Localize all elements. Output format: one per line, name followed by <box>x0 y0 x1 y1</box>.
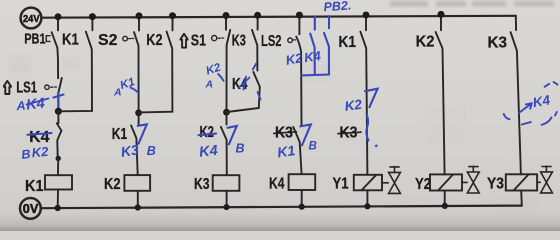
strikethrough on K3 label rung6 <box>338 132 361 134</box>
node rung2 join <box>135 109 142 116</box>
svg-text:K3: K3 <box>194 176 210 193</box>
svg-text:K2: K2 <box>416 34 435 51</box>
svg-text:Y3: Y3 <box>487 176 504 193</box>
printed text labels <box>16 14 507 216</box>
strikethrough on K3 label rung5 <box>274 132 297 134</box>
contact S2 roller <box>123 36 128 41</box>
node rung4 join <box>223 109 230 116</box>
blue ticks on K4 seal contact <box>253 64 261 100</box>
node top rail junctions <box>55 11 445 20</box>
contact K1 rung6 blade <box>360 15 367 175</box>
svg-text:K2: K2 <box>104 176 121 193</box>
blue arrow tail from K2 note to rung4 <box>218 74 223 81</box>
svg-text:K2: K2 <box>31 144 50 160</box>
svg-text:PB2.: PB2. <box>323 0 352 14</box>
blue parallel branch PB2: left contact K2 <box>310 17 315 75</box>
svg-text:K2: K2 <box>344 97 364 114</box>
blue parallel branch PB2: right contact K4 <box>324 16 329 74</box>
wire rung4 to mid contact <box>226 112 228 124</box>
contact K4 on seal branch <box>227 72 260 112</box>
blue overdraw on LS1 contact <box>54 93 64 107</box>
blue contact mark rung4 <box>228 126 237 144</box>
contact S1 blade <box>226 16 230 112</box>
faint bleed-through ghost text top right <box>390 1 554 7</box>
svg-text:K1: K1 <box>25 178 44 195</box>
contact K1 rung2 (mid) blade <box>131 126 138 176</box>
contact K1 seal-in branch <box>59 17 93 112</box>
valve Y3 symbol <box>537 181 540 183</box>
svg-text:K2: K2 <box>285 50 305 68</box>
svg-text:Y2: Y2 <box>415 176 431 193</box>
blue contact mark rung6 <box>365 89 378 108</box>
wire coil Y3 bottom corner to 0V rail <box>520 191 523 206</box>
wire rung1 to mid contact <box>57 111 59 123</box>
svg-text:K2: K2 <box>200 124 215 141</box>
supply terminal 24V <box>21 8 42 29</box>
arrow symbol before S1 <box>180 34 188 48</box>
svg-text:K3: K3 <box>120 141 140 159</box>
svg-text:K4: K4 <box>25 96 45 114</box>
svg-text:LS1: LS1 <box>16 80 37 97</box>
blue arrow tail from K1 note to rung2 <box>131 88 139 93</box>
svg-text:Y1: Y1 <box>333 176 349 193</box>
contact PB1 blade <box>52 17 59 78</box>
coil K1 box <box>45 175 72 189</box>
svg-text:K3: K3 <box>340 125 358 142</box>
wire coil K1 to 0V rail <box>57 190 59 208</box>
blue contact mark rung2 <box>138 124 147 143</box>
svg-text:A: A <box>205 79 214 91</box>
svg-text:K3: K3 <box>488 34 508 51</box>
wire coil Y1 to 0V rail <box>366 190 368 206</box>
blue strike on K4 label rung1 <box>28 133 52 135</box>
svg-text:K4: K4 <box>303 48 322 65</box>
contact K2 rung7 blade <box>436 14 445 174</box>
svg-text:K1: K1 <box>112 126 128 143</box>
blue dot rung6 <box>375 145 378 148</box>
top rail 24V bus <box>41 16 515 18</box>
coil K2 box <box>124 175 150 191</box>
contact K3 seal-in branch <box>252 15 258 70</box>
svg-text:0V: 0V <box>23 202 39 216</box>
svg-text:K1: K1 <box>276 142 296 160</box>
coil K4 box <box>289 174 316 190</box>
contact K3 rung5 (mid) blade <box>293 127 301 174</box>
wire coil K3 to 0V rail <box>226 191 228 207</box>
coil K3 box <box>213 175 240 191</box>
svg-text:S1: S1 <box>191 33 206 50</box>
svg-text:K3: K3 <box>232 32 246 49</box>
svg-text:PB1: PB1 <box>24 32 45 48</box>
svg-text:LS2: LS2 <box>261 33 282 50</box>
blue contact mark rung5 <box>300 125 311 146</box>
contact K4 rung1 (mid) blade <box>57 123 62 157</box>
wire coil K2 to 0V rail <box>137 191 139 208</box>
blue handwritten text <box>15 0 552 162</box>
svg-text:B: B <box>236 142 245 156</box>
svg-text:K4: K4 <box>532 92 552 110</box>
limit switch LS1 contact <box>58 78 62 109</box>
contact S1 roller <box>212 36 217 41</box>
ink blob node rung1 <box>56 156 61 161</box>
svg-text:B: B <box>147 144 156 158</box>
valve Y2 symbol <box>462 181 467 183</box>
svg-text:K4: K4 <box>269 175 285 192</box>
svg-text:A: A <box>15 99 26 114</box>
svg-text:K4: K4 <box>198 143 218 161</box>
coil Y3 box with diagonal <box>506 174 537 190</box>
svg-text:B: B <box>21 147 31 162</box>
node rung1 join <box>55 108 62 115</box>
blue scribble on rung6 wire <box>366 115 368 141</box>
coil Y1 box with diagonal <box>354 175 382 191</box>
contact K3 rung8 blade <box>511 32 521 174</box>
svg-text:K1: K1 <box>339 34 357 51</box>
bottom rail 0V bus <box>41 206 522 209</box>
blue dashed ellipse rung8 <box>504 82 558 125</box>
faint bleed-through marks <box>8 56 538 218</box>
coil Y2 box with diagonal <box>430 174 462 190</box>
wire coil Y2 to 0V rail <box>444 191 446 206</box>
contact LS2 blade <box>296 15 301 125</box>
svg-text:B: B <box>309 141 317 153</box>
node bottom rail junctions <box>55 203 448 211</box>
wire coil K4 to 0V rail <box>301 190 303 206</box>
wire rung2 to mid contact <box>138 113 140 125</box>
wire top rail corner to rung8 <box>515 16 517 30</box>
arrow symbol before LS1 <box>3 81 11 94</box>
svg-text:24V: 24V <box>23 14 40 25</box>
svg-text:K1: K1 <box>62 31 79 48</box>
wire into coil K1 <box>57 158 59 175</box>
contact K2 seal-in branch <box>139 16 173 113</box>
blue join wire PB2 branch <box>302 73 330 76</box>
blue annotation arrow rung8 <box>519 103 532 113</box>
blue cross on K4 seal label <box>239 77 250 90</box>
pushbutton PB1 actuator symbol <box>46 36 50 42</box>
svg-text:A: A <box>113 87 122 99</box>
contact LS2 roller <box>288 38 293 43</box>
LS1 roller circle <box>45 85 49 89</box>
valve Y1 symbol <box>382 182 388 184</box>
svg-text:S2: S2 <box>98 32 118 49</box>
svg-text:K2: K2 <box>146 32 162 49</box>
contact K2 rung4 (mid) blade <box>221 127 227 175</box>
blue strike over LS1 K4 note <box>27 99 49 105</box>
supply terminal 0V <box>20 198 41 219</box>
svg-text:K3: K3 <box>275 124 293 141</box>
contact S2 blade <box>134 16 139 112</box>
blue strike on K2 label rung4 <box>199 134 217 136</box>
